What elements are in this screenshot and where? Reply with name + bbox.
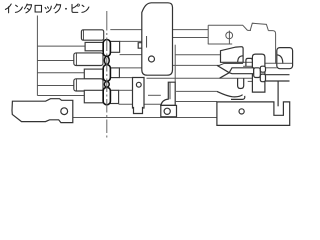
wedge inner arc bbox=[238, 56, 243, 63]
tab base line bbox=[248, 29, 252, 31]
middle dot bbox=[65, 8, 67, 10]
hole in post plate bbox=[164, 108, 170, 114]
sleeve S2 cap line bbox=[75, 53, 77, 66]
bar rect R-A bbox=[110, 41, 119, 52]
tab bump bbox=[250, 23, 268, 30]
rail y74.7 right bbox=[265, 74, 290, 76]
post inner line bbox=[169, 82, 171, 99]
upper bracket step vertical bbox=[207, 25, 209, 44]
kana イ bbox=[5, 4, 11, 13]
right bracket inner arc bbox=[277, 55, 283, 64]
comb rod 4 bbox=[37, 85, 74, 87]
bar B3 bbox=[84, 69, 103, 79]
bar B1 bbox=[85, 42, 103, 50]
leader line and comb edge bbox=[36, 16, 38, 96]
long bottom line bbox=[73, 117, 217, 119]
sleeve S2 bbox=[74, 53, 103, 66]
bar B5 bbox=[84, 90, 103, 103]
sleeve S4 bbox=[74, 79, 103, 91]
narrow plate with hole (bottom middle-left) bbox=[133, 78, 145, 114]
upper bracket bottom line bbox=[173, 37, 209, 39]
bar rect R-B bbox=[110, 68, 119, 78]
band base y66.3 bbox=[243, 65, 252, 67]
bottom left lever bbox=[12, 99, 73, 123]
top bar rail behind big part bbox=[110, 29, 208, 31]
label インタロック・ピン (vector kana) bbox=[5, 4, 89, 13]
rail y67.9 right of R-B bbox=[119, 67, 141, 69]
bar rect R-C bbox=[110, 90, 118, 103]
small U post bbox=[246, 54, 265, 92]
wedge cam (right middle) bbox=[218, 47, 243, 66]
big U post bbox=[252, 54, 265, 92]
vertical post (bottom middle) bbox=[161, 82, 177, 117]
doubled edge right of big part bbox=[174, 45, 176, 82]
curl shoe upper curve bbox=[217, 91, 243, 96]
rail y90.3 right of R-C bbox=[119, 89, 133, 91]
upper shelf line bbox=[208, 25, 247, 30]
vertical x278.1 bbox=[277, 81, 279, 106]
band line y67.8 bbox=[265, 67, 277, 69]
kana ピ bbox=[72, 4, 79, 12]
vertical centerline dash-dot bbox=[106, 33, 108, 140]
arrow slant upper bbox=[217, 65, 229, 72]
rail y54.8 bbox=[175, 54, 220, 56]
kana ン (second) bbox=[82, 5, 89, 12]
rail y91.4 bbox=[176, 90, 217, 92]
band line y63.3 bbox=[265, 62, 293, 64]
shelf edge vertical bbox=[228, 31, 230, 44]
sleeve S4 cap line bbox=[75, 79, 77, 91]
top bar TB bbox=[74, 30, 120, 104]
wedge base line bbox=[218, 63, 243, 65]
bottom right big plate bbox=[217, 102, 290, 126]
kana ッ bbox=[45, 6, 51, 12]
hole in upper shelf plate bbox=[226, 32, 233, 39]
rail y44 bbox=[208, 43, 232, 45]
short line y81.4 bbox=[248, 80, 253, 82]
band line y62.3 bbox=[243, 61, 252, 63]
narrow plate foot bbox=[134, 107, 143, 114]
kana ロ bbox=[35, 5, 41, 12]
U slot below rail bbox=[217, 48, 293, 107]
rail y104.3 behind narrow plate bbox=[119, 103, 161, 105]
comb rod 1 bbox=[37, 45, 85, 47]
comb rod 3 bbox=[37, 72, 84, 74]
comb rod 2 bbox=[37, 60, 74, 62]
interlock pin capsule 3 bbox=[103, 87, 110, 105]
interlock pin capsule 1 bbox=[103, 40, 110, 105]
band line through bracket bbox=[277, 62, 292, 64]
rail y65.4 bbox=[173, 64, 220, 66]
right nub upper bbox=[260, 66, 265, 72]
rail y101.5 bbox=[176, 101, 217, 103]
hole in bottom right plate bbox=[239, 109, 244, 114]
kana ン bbox=[15, 5, 22, 12]
kana タ bbox=[25, 4, 32, 13]
short rail y95.3 bbox=[148, 94, 161, 96]
post lower plate bbox=[161, 105, 177, 116]
pointed bar (right) bbox=[217, 65, 266, 81]
hole in big part bbox=[149, 56, 155, 62]
right nub lower bbox=[260, 74, 265, 82]
interlock pin capsule 2 bbox=[103, 65, 110, 82]
rail y54.6 right of R-A bbox=[120, 54, 142, 56]
TB cap inner line bbox=[82, 30, 84, 40]
rail y81 right bbox=[265, 80, 290, 82]
spacer oval 2 bbox=[104, 82, 109, 88]
link block bbox=[254, 68, 261, 78]
left notch tab on big part bbox=[138, 43, 142, 49]
right bracket rect bbox=[277, 48, 293, 69]
rail y77.6 right of R-B bbox=[119, 77, 132, 79]
inner edge line in big part bbox=[146, 36, 148, 48]
arrow slant lower bbox=[220, 73, 230, 79]
kana ク bbox=[54, 4, 61, 13]
comb rod 5 / comb bottom bbox=[37, 95, 84, 97]
curl shoe bottom edge bbox=[231, 96, 245, 100]
spacer oval 1 bbox=[104, 56, 109, 64]
big vertical link part bbox=[138, 3, 172, 75]
hole in lever bbox=[61, 108, 68, 115]
right corner down from tab bbox=[268, 31, 275, 64]
rail y41.4 right of R-A bbox=[120, 40, 142, 42]
long rail y78.2 bbox=[147, 77, 254, 79]
vertical centerline solid top segment bbox=[106, 11, 108, 31]
hole in narrow plate bbox=[136, 82, 141, 87]
